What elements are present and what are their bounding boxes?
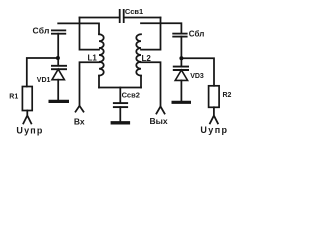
wire L2 tap1 (top rail to coil) [141, 18, 161, 50]
wire L1 tap1 (top rail to coil) [80, 18, 100, 50]
wire junction to R1 [27, 58, 58, 87]
wire L2 top to Сбл-right [141, 23, 181, 33]
wire Сбл-right bottom to junction [180, 37, 182, 59]
wire L2 bottom lead [140, 76, 142, 88]
wire bottom rail [99, 87, 141, 89]
inductor L1 [99, 34, 104, 75]
wire top rail left segment [80, 17, 120, 19]
svg-text:L2: L2 [142, 54, 152, 63]
svg-text:Вх: Вх [74, 116, 85, 126]
ground under VD1 [49, 100, 70, 103]
varicap VD3 [173, 58, 189, 100]
wire L1 tap2 to Вх [80, 62, 100, 106]
svg-text:Сбл: Сбл [33, 26, 50, 36]
ground under Ссв2 [111, 121, 131, 124]
svg-text:Ссв2: Ссв2 [122, 91, 140, 100]
inductor L2 [136, 34, 141, 75]
node junction dot left [56, 56, 60, 60]
wire Сбл-left bottom to junction [57, 34, 59, 58]
wire L1 bottom lead [98, 76, 100, 88]
capacitor Ссв1 [120, 9, 124, 23]
terminal Вых [156, 106, 164, 113]
svg-text:L1: L1 [88, 53, 98, 62]
svg-text:Сбл: Сбл [189, 29, 205, 38]
svg-text:Ссв1: Ссв1 [125, 7, 143, 16]
wire Сбл-left to L1 top [58, 23, 99, 34]
resistor R2 [209, 86, 220, 108]
node junction dot right [179, 56, 183, 60]
terminal Вх [76, 106, 84, 112]
svg-text:Uупр: Uупр [16, 126, 43, 136]
svg-text:R2: R2 [223, 92, 232, 99]
capacitor Ссв2 [119, 88, 121, 103]
ground under VD3 [172, 101, 192, 104]
svg-text:VD1: VD1 [37, 77, 51, 84]
varicap VD1 [51, 58, 67, 100]
capacitor Сбл right [172, 34, 187, 37]
wire junction to R2 [181, 58, 214, 86]
resistor R1 [22, 87, 32, 111]
svg-text:Uупр: Uупр [200, 125, 228, 135]
capacitor Сбл left [51, 30, 66, 33]
terminal Uупр right [210, 107, 218, 123]
svg-text:R1: R1 [9, 93, 18, 100]
svg-text:Вых: Вых [150, 116, 168, 126]
wire top rail right segment [124, 17, 160, 19]
terminal Uупр left [23, 111, 31, 124]
svg-text:VD3: VD3 [190, 73, 204, 80]
wire L2 tap2 to Вых [141, 62, 161, 106]
